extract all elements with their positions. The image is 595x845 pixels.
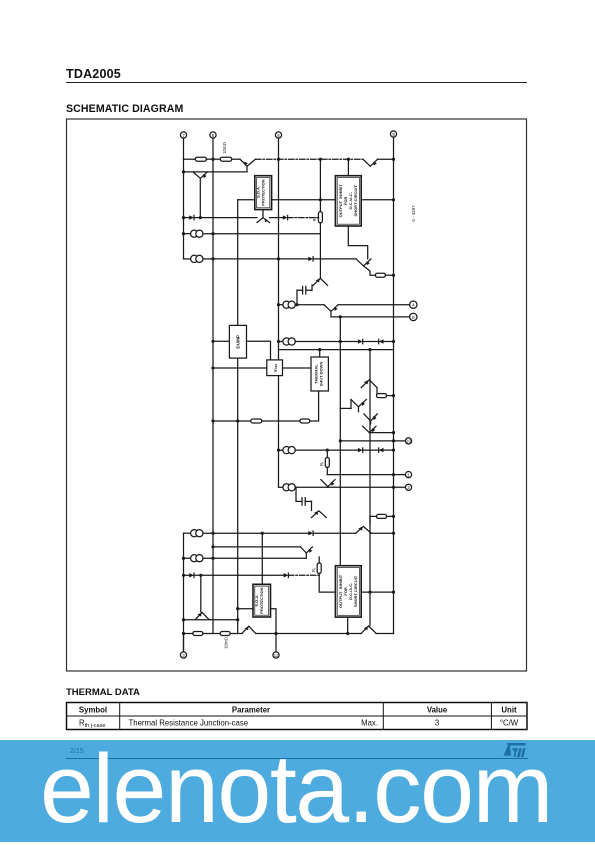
current source I3: [283, 301, 324, 308]
junction x=262.3 y=533.2: [261, 532, 264, 535]
wire y=474.6 to pin: [327, 474, 405, 476]
wire y=199.8 box2 to rail: [361, 199, 393, 201]
diode D10: [284, 573, 320, 577]
header rule: [66, 82, 527, 83]
svg-text:Unit: Unit: [501, 706, 517, 715]
ST logo top bar: [507, 743, 526, 746]
section heading SCHEMATIC DIAGRAM: [66, 103, 183, 115]
junction x=237.7 y=619.7: [236, 618, 239, 621]
box U1 S.O.A PROTECTION: [255, 176, 272, 210]
transistor Q16: [195, 612, 209, 619]
box U2 OUTPUT INHIBIT FOR O.C A.C SHORT CIRCUIT: [335, 176, 361, 226]
terminal pin 9 top-right: [390, 131, 396, 137]
wire box2 bottom drop: [348, 226, 367, 259]
resistor R12: [193, 632, 203, 636]
wire y=421 to corner: [310, 391, 319, 421]
transistor Q5: [356, 259, 375, 275]
wire Q3 emitter to rail: [378, 158, 394, 160]
capacitor C2: [296, 487, 312, 510]
footer rule: [66, 758, 528, 759]
diode D7: [363, 448, 394, 452]
wire R5 to rail: [385, 274, 393, 276]
junction x=237.7 y=421: [236, 419, 239, 422]
resistor R4 vertical: [312, 212, 322, 223]
table column line 3: [490, 703, 492, 730]
junction x=213 y=533.2: [211, 532, 214, 535]
footer blue banner: [0, 740, 595, 842]
wire y=421 mid: [262, 420, 300, 422]
junction x=200.3 y=217.6: [199, 216, 202, 219]
wire y=546.9: [213, 546, 301, 548]
wire y=487.3 to pin: [327, 486, 329, 489]
wire bus right end: [376, 633, 394, 635]
wire R10 to rail: [387, 515, 394, 517]
junction x=393.5 y=395.6: [392, 394, 395, 397]
wire SOA2 top stem: [261, 533, 263, 584]
junction x=183.5 y=217.6: [182, 216, 185, 219]
terminal pin 11 bottom: [273, 652, 279, 658]
svg-text:°C/W: °C/W: [500, 719, 519, 728]
junction x=340.3 y=440.9: [339, 439, 342, 442]
junction x=200.8 y=575.3: [199, 574, 202, 577]
terminal pin 6: [275, 132, 281, 138]
wire x=200.8 drop: [200, 575, 202, 612]
junction x=393.5 y=592.1: [392, 591, 395, 594]
terminal pin 2: [405, 484, 411, 490]
wire y=408.4 base link: [340, 407, 351, 409]
transistor Q2 left mirror: [193, 172, 208, 218]
current source I4: [279, 338, 341, 345]
junction x=278.5 y=304.7: [277, 303, 280, 306]
transistor Q15: [301, 547, 313, 558]
table column line 1: [119, 703, 121, 730]
terminal pin 5: [410, 313, 417, 321]
junction x=213 y=233.7: [211, 232, 214, 235]
wire y=575.3 diode row: [194, 574, 284, 576]
junction x=278.5 y=450.1: [277, 449, 280, 452]
resistor R13 10mohm: [220, 632, 230, 636]
wire R10 left: [370, 516, 377, 524]
diode D9: [184, 573, 195, 577]
wire y=349.6: [279, 349, 394, 351]
table header separator: [67, 715, 528, 717]
wire VREF right: [283, 367, 312, 369]
wire elbow x=183.5 y=258.9: [184, 258, 191, 260]
resistor R11 vertical: [311, 563, 321, 573]
wire R11 bottom to y592: [319, 573, 335, 592]
wire thermal box stem: [319, 350, 321, 357]
wire R6 to rail: [387, 395, 394, 397]
junction x=340.3 y=316.9: [339, 315, 342, 318]
diode D2: [283, 215, 288, 219]
junction x=297 y=304.7: [295, 303, 298, 306]
junction x=319.7 y=349.6: [318, 348, 321, 351]
junction x=213 y=558.2: [211, 557, 214, 560]
wire rail x=183.5 upper: [183, 159, 185, 259]
ST logo T stroke 2: [521, 748, 526, 757]
wire DUMP left: [213, 340, 229, 342]
wire DUMP right: [247, 341, 271, 360]
wire rail x=213 full height: [212, 138, 214, 633]
transistor Q1: [240, 159, 256, 172]
wire VREF left: [213, 367, 267, 369]
junction x=393.5 y=533.2: [392, 532, 395, 535]
resistor R9 vertical: [319, 458, 329, 468]
current source I1: [184, 230, 321, 237]
junction x=370 y=349.6: [368, 348, 371, 351]
box U3 DUMP: [229, 325, 246, 358]
box U7 OUTPUT INHIBIT 2: [335, 566, 361, 617]
resistor R10: [377, 514, 387, 518]
wire U7 bottom stem: [347, 617, 349, 633]
svg-text:3: 3: [435, 719, 439, 728]
junction x=213 y=341.3: [211, 340, 214, 343]
wire rail x=183.5 lower: [183, 533, 185, 652]
junction x=340.3 y=341.5: [339, 340, 342, 343]
junction x=327.3 y=450.1: [326, 449, 329, 452]
svg-text:Value: Value: [427, 706, 448, 715]
junction x=393.5 y=440.9: [392, 439, 395, 442]
wire y=421 long: [213, 420, 251, 422]
wire between resistors: [206, 158, 220, 160]
table outer border: [67, 703, 528, 730]
junction x=278.5 y=258.9: [277, 257, 280, 260]
wire y=304.7 to pin: [338, 304, 409, 306]
schematic frame: [67, 119, 527, 671]
current source I8: [184, 555, 307, 562]
wire Q8 emitter to resistor: [376, 388, 378, 396]
junction x=320.4 y=159.2: [319, 158, 322, 161]
resistor R8: [300, 419, 310, 423]
current source I5: [279, 447, 358, 454]
junction x=183.5 y=171.9: [182, 170, 185, 173]
svg-text:Max.: Max.: [361, 719, 378, 728]
wire y=199.8 elbow from rail237: [238, 199, 255, 201]
junction x=213 y=421: [211, 419, 214, 422]
junction x=393.5 y=199.8: [392, 198, 395, 201]
ST logo: [498, 738, 530, 762]
wire y=171.9: [184, 171, 248, 173]
junction x=393.5 y=474.6: [392, 473, 395, 476]
terminal pin 4: [410, 301, 417, 309]
resistor R7: [251, 419, 262, 423]
box U6 SOA PROTECTION 2: [253, 584, 271, 617]
wire y=592.1 box right to rail: [361, 591, 393, 593]
wire y=316.9 to pin: [331, 316, 410, 318]
ST logo T stroke 1: [517, 748, 522, 757]
transistor Q18: [361, 626, 376, 633]
transistor Q14: [356, 526, 372, 533]
junction x=393.5 y=516.4: [392, 515, 395, 518]
terminal pin 8: [210, 132, 216, 138]
junction rail213 y=159.2: [211, 158, 214, 161]
wire SOA2 right link: [271, 609, 277, 634]
transistor Q6: [313, 223, 328, 286]
junction x=347.7 y=633.5: [346, 632, 349, 635]
wire rail x=237.7 below DUMP: [237, 358, 239, 633]
wire stem pin 11: [275, 634, 277, 652]
elenota.com watermark: [40, 733, 552, 845]
ST logo S glyph: [512, 748, 518, 757]
wire R9 bottom to pin wire: [326, 467, 328, 474]
junction x=393.5 y=275.2: [392, 274, 395, 277]
transistor Q12: [321, 480, 335, 487]
junction x=183.5 y=619.7: [182, 618, 185, 621]
svg-text:Symbol: Symbol: [79, 706, 107, 715]
wire bus mid3: [256, 633, 362, 635]
wire y=217.6 to R4: [288, 217, 321, 219]
current source I2: [191, 255, 309, 262]
junction x=370 y=592.1: [368, 591, 371, 594]
transistor Q3: [363, 159, 378, 166]
diode D6: [358, 448, 363, 452]
wire y=619.7: [184, 619, 238, 621]
wire rail x=237.7 upper: [237, 200, 239, 326]
resistor R5: [375, 273, 385, 277]
wire x=348.4 into box top: [347, 159, 349, 176]
terminal pin 7 top-left: [180, 132, 186, 138]
resistor R2: [195, 157, 206, 161]
current source I7: [191, 530, 309, 537]
junction x=393.5 y=159.2: [392, 158, 395, 161]
transistor Q13: [312, 511, 327, 518]
wire y=217.6 diode row: [194, 217, 257, 219]
capacitor C1: [297, 285, 312, 305]
junction x=213 y=258.9: [211, 257, 214, 260]
resistor R6: [377, 394, 387, 398]
junction x=278.5 y=341.5: [277, 340, 280, 343]
transistor Q11: [363, 426, 376, 432]
svg-text:Thermal Resistance Junction-ca: Thermal Resistance Junction-case: [129, 719, 249, 728]
wire rail x=370: [369, 350, 371, 626]
junction x=183.5 y=558.2: [182, 557, 185, 560]
wire y=199.8 box1 to box2: [272, 199, 336, 201]
ST logo flag triangle: [504, 746, 511, 756]
wire y=159.2 dash-dot to Q3: [256, 158, 364, 160]
diode D5: [363, 339, 394, 343]
box U5 THERMAL SHUT DOWN: [311, 357, 328, 391]
transistor Q17: [242, 626, 256, 633]
terminal pin 10: [405, 438, 411, 444]
wire bus mid1: [203, 633, 221, 635]
diode D4: [340, 339, 362, 343]
footer page number 2/15: [70, 748, 84, 755]
wire y=304.7 left stub: [279, 304, 284, 306]
wire y=159.2 left segment: [184, 158, 196, 160]
wire R11 top stub: [318, 557, 320, 563]
transistor Q10 body: [364, 414, 377, 424]
section heading THERMAL DATA: [66, 687, 140, 698]
svg-text:Parameter: Parameter: [232, 706, 270, 715]
junction x=237.7 y=608.7: [236, 607, 239, 610]
junction x=393.5 y=487.3: [392, 486, 395, 489]
wire R9 top stub: [326, 450, 328, 458]
transistor Q8: [361, 380, 377, 388]
terminal pin 1: [405, 472, 411, 478]
transistor Q9: [351, 400, 366, 412]
transistor Q7: [324, 305, 338, 317]
resistor R3 10mohm: [220, 157, 231, 161]
junction x=183.5 y=633.5: [182, 632, 185, 635]
box U4 VREF: [267, 360, 283, 376]
wire y=440.9 to pin: [340, 440, 405, 442]
wire y=432.6 to rail: [369, 432, 393, 434]
wire bottom bus left: [184, 633, 193, 635]
wire Q14 to rail: [371, 532, 393, 534]
junction x=278.5 y=159.2: [277, 158, 280, 161]
junction x=348.4 y=159.2: [347, 158, 350, 161]
terminal pin 3 bottom-left: [180, 652, 186, 658]
wire elbow x=183.5 y=533.2: [184, 532, 191, 534]
header title TDA2005: [66, 67, 121, 81]
wire x=320.4 drop: [319, 159, 321, 212]
junction x=393.5 y=432.6: [392, 431, 395, 434]
wire y=217.6 right of Q4: [270, 217, 283, 219]
wire y=487.3: [295, 486, 406, 488]
diode D8: [308, 531, 355, 535]
junction x=213 y=368: [211, 366, 214, 369]
junction x=183.5 y=233.7: [182, 232, 185, 235]
diode D3: [308, 257, 356, 261]
wire SOA2 left link: [238, 608, 253, 610]
wire stem pin 3: [183, 634, 185, 652]
junction x=183.5 y=575.3: [182, 574, 185, 577]
wire bus mid2: [230, 633, 242, 635]
junction x=320.4 y=199.8: [319, 198, 322, 201]
wire rail x=393.5 supply: [393, 137, 395, 633]
junction x=276 y=633.5: [274, 632, 277, 635]
table column line 2: [382, 703, 384, 730]
wire stem pin 7: [183, 138, 185, 159]
junction x=393.5 y=450.1: [392, 449, 395, 452]
junction x=213 y=546.9: [211, 545, 214, 548]
transistor Q4: [257, 210, 270, 223]
junction x=393.5 y=341.5: [392, 340, 395, 343]
wire rail x=278.5: [278, 138, 280, 487]
diode D1: [184, 215, 195, 219]
wire rail x=340.3: [339, 317, 341, 566]
current source I6: [279, 484, 296, 491]
wire y=159.2 to Q1: [232, 158, 240, 160]
